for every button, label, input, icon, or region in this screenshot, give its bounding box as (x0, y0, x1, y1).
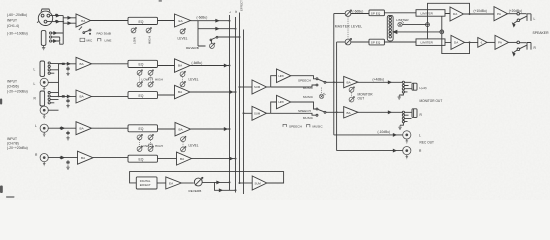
svg-text:EFFECT: EFFECT (140, 183, 151, 187)
svg-text:LIMITER: LIMITER (396, 18, 409, 22)
svg-text:HIGH: HIGH (155, 78, 163, 82)
svg-text:INPUT: INPUT (7, 80, 17, 84)
svg-text:MUSIC: MUSIC (303, 116, 314, 120)
svg-text:L(+R): L(+R) (420, 86, 427, 90)
svg-text:EQ: EQ (139, 127, 144, 131)
svg-text:MASTER LEVEL: MASTER LEVEL (335, 25, 363, 29)
svg-text:(CH7/8): (CH7/8) (7, 142, 19, 146)
svg-text:PAD 30dB: PAD 30dB (97, 31, 111, 35)
svg-text:(+20dBu): (+20dBu) (509, 9, 522, 13)
svg-text:MIC: MIC (87, 39, 93, 43)
svg-text:EQ: EQ (139, 20, 144, 24)
svg-text:MUSIC: MUSIC (303, 86, 314, 90)
svg-text:EFFECT: EFFECT (240, 0, 244, 11)
svg-text:L: L (35, 124, 37, 128)
svg-text:(-6dBu): (-6dBu) (197, 16, 208, 20)
svg-text:LOW: LOW (133, 37, 137, 44)
svg-text:HIGH: HIGH (148, 36, 152, 44)
svg-text:(-60~-20dBu): (-60~-20dBu) (7, 13, 27, 17)
svg-text:L: L (419, 133, 421, 137)
svg-text:L: L (534, 17, 536, 21)
svg-text:SUM: SUM (255, 181, 262, 185)
svg-text:HPF: HPF (279, 100, 285, 104)
svg-text:SPEECH: SPEECH (298, 109, 311, 113)
svg-text:EQ: EQ (139, 157, 144, 161)
svg-text:SP EQ: SP EQ (371, 11, 381, 15)
svg-text:LOW: LOW (142, 144, 149, 148)
svg-text:(-20~+20dBu): (-20~+20dBu) (7, 90, 28, 94)
svg-text:EQ: EQ (139, 63, 144, 67)
svg-text:(CH1-4): (CH1-4) (7, 24, 19, 28)
svg-text:SUM: SUM (254, 112, 261, 116)
svg-text:LOW: LOW (142, 78, 149, 82)
svg-text:EQ: EQ (139, 94, 144, 98)
svg-text:-1: -1 (480, 41, 483, 45)
svg-text:INPUT: INPUT (7, 137, 17, 141)
svg-text:REVERB: REVERB (186, 46, 199, 50)
svg-text:HIGH: HIGH (155, 144, 163, 148)
svg-text:HPF: HPF (279, 74, 285, 78)
svg-text:LEVEL: LEVEL (189, 78, 199, 82)
svg-text:MUSIC: MUSIC (313, 124, 324, 128)
svg-text:(-6dBu): (-6dBu) (353, 9, 364, 13)
svg-text:MUSIC: MUSIC (303, 95, 314, 99)
svg-text:L: L (34, 68, 36, 72)
svg-text:L: L (228, 11, 232, 13)
svg-text:SUM: SUM (254, 85, 261, 89)
svg-text:MONITOR OUT: MONITOR OUT (420, 99, 443, 103)
svg-text:LEVEL: LEVEL (178, 37, 188, 41)
svg-text:SPEECH: SPEECH (289, 124, 302, 128)
svg-text:LIMITER: LIMITER (421, 11, 434, 15)
svg-text:INPUT: INPUT (7, 19, 17, 23)
svg-text:LINE: LINE (105, 39, 112, 43)
svg-text:REC OUT: REC OUT (420, 140, 435, 144)
svg-text:(-6dBu): (-6dBu) (192, 61, 203, 65)
svg-text:LEVEL: LEVEL (189, 144, 199, 148)
svg-text:REVERB: REVERB (189, 189, 202, 193)
svg-text:(-10dBu): (-10dBu) (378, 130, 391, 134)
svg-text:SPEECH: SPEECH (298, 79, 311, 83)
svg-text:LIMITER: LIMITER (421, 41, 434, 45)
svg-text:(-30~+10dBu): (-30~+10dBu) (7, 32, 28, 36)
svg-text:SPEAKER: SPEAKER (533, 31, 550, 35)
svg-text:L: L (34, 82, 36, 86)
svg-text:(+4dBu): (+4dBu) (373, 78, 385, 82)
svg-text:(CH5/6): (CH5/6) (7, 85, 19, 89)
svg-text:OUT: OUT (358, 97, 365, 101)
svg-text:(+10dBu): (+10dBu) (474, 9, 487, 13)
svg-text:(-20~+20dBu): (-20~+20dBu) (7, 146, 28, 150)
svg-text:SP EQ: SP EQ (371, 41, 381, 45)
